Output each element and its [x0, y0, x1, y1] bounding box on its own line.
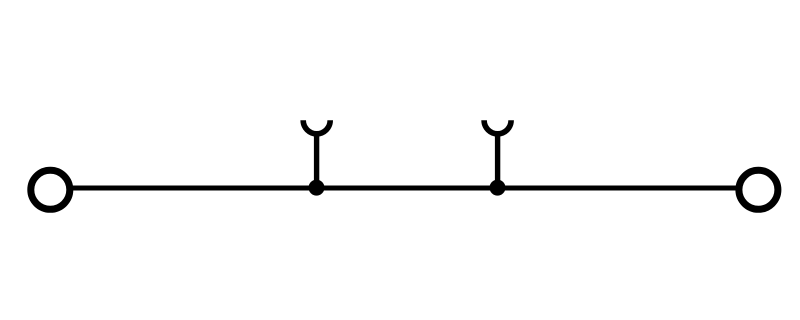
- wire: [71, 186, 738, 191]
- junction node 1: [309, 180, 325, 196]
- wire tap stem 1: [314, 133, 319, 189]
- terminal circle left: [31, 170, 70, 209]
- terminal circle right: [739, 170, 778, 209]
- wire tap stem 2: [495, 133, 500, 189]
- junction node 2: [490, 180, 506, 196]
- tap fork arc 2: [484, 120, 511, 134]
- tap fork arc 1: [303, 120, 330, 134]
